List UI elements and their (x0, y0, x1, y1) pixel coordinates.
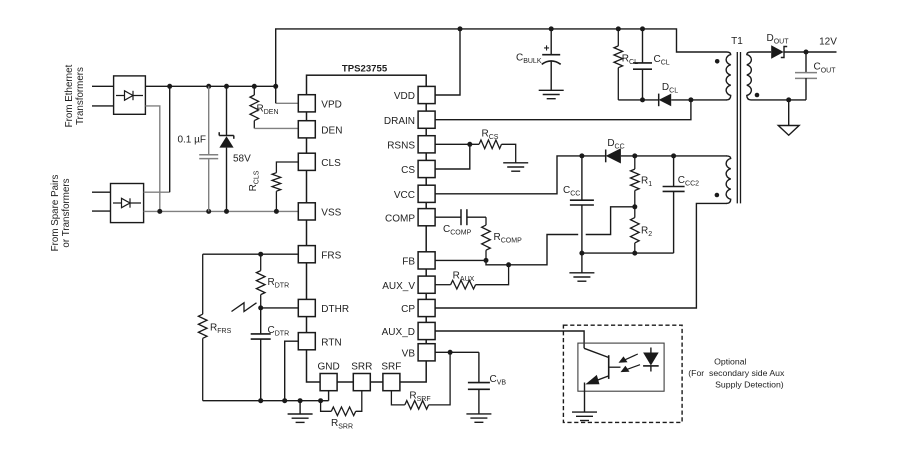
wire: DRAIN to primary (435, 100, 691, 120)
resistor RCS (479, 140, 516, 163)
svg-text:0.1 µF: 0.1 µF (177, 134, 206, 145)
svg-text:+: + (544, 44, 550, 55)
svg-text:From Ethernet: From Ethernet (64, 64, 75, 127)
pin SRF (381, 362, 401, 391)
transformer T1 core (737, 52, 740, 203)
svg-text:From Spare Pairs: From Spare Pairs (50, 175, 61, 252)
svg-text:FB: FB (402, 257, 415, 268)
diode bridge B1 (Ethernet pairs) (114, 76, 146, 114)
pin CS (401, 160, 435, 177)
capacitor CBULK (electrolytic) (542, 29, 561, 90)
wire: 12V stub (806, 51, 837, 53)
node: CCL clamp junction (640, 97, 645, 102)
wire: FRS node (203, 253, 299, 255)
node: DCL-primary junction (688, 97, 693, 102)
svg-text:Supply Detection): Supply Detection) (715, 379, 784, 389)
svg-text:AUX_D: AUX_D (382, 327, 415, 338)
pin VB (402, 344, 435, 361)
svg-text:CP: CP (401, 304, 415, 315)
wire: GND pin rail link (321, 400, 329, 402)
wire: divider bottom (582, 252, 674, 254)
diode DCL (659, 94, 691, 107)
wire: RTN to bottom rail (285, 341, 299, 401)
wire: bridge1 - output down to VSS rail (145, 106, 159, 211)
svg-text:TPS23755: TPS23755 (342, 63, 388, 74)
node: aux phase dot (715, 193, 720, 198)
wire: DTHR stub (261, 307, 299, 309)
svg-text:Optional: Optional (714, 356, 746, 366)
optocoupler LED (643, 348, 659, 372)
ground main (bottom left) (288, 401, 313, 423)
node: 12V junction (804, 50, 809, 55)
pin FB (402, 252, 435, 269)
wire: VPD rail riser and top VDD rail (276, 29, 727, 103)
node: RDTR top junction (258, 252, 263, 257)
node: R1 rail junction (632, 153, 637, 158)
wire: bridge2 + output up to VPD rail (144, 86, 170, 192)
node: CCC rail junction (579, 153, 584, 158)
wire: AUX_D to optocoupler (435, 331, 584, 348)
capacitor CCL (633, 29, 652, 100)
resistor RCL (614, 29, 623, 100)
wire: B2 input stubs (92, 192, 111, 211)
node: RTN rail junction (282, 398, 287, 403)
pin DEN (298, 121, 342, 138)
pin AUX_D (382, 322, 435, 339)
ground secondary (chassis triangle) (778, 100, 799, 135)
node: VPD rail junctions (167, 84, 278, 89)
transformer T1 secondary winding (747, 52, 752, 100)
svg-text:58V: 58V (233, 154, 251, 165)
node: VDD rail junction (458, 26, 463, 31)
svg-text:Transformers: Transformers (75, 67, 86, 125)
capacitor CCC2 (663, 156, 685, 253)
node: ground rail junction (298, 398, 303, 403)
capacitor CVB (468, 352, 490, 414)
resistor RCOMP (482, 217, 491, 260)
wire: CP to aux winding (435, 203, 727, 308)
optocoupler phototransistor (584, 348, 620, 412)
node: RCOMP-FB junction (484, 258, 489, 263)
op-amp U1 TPS23755 IC body (307, 75, 427, 382)
svg-text:RTN: RTN (321, 337, 341, 348)
svg-text:RSNS: RSNS (387, 141, 415, 152)
ground under optocoupler (572, 411, 597, 413)
pin CLS (298, 153, 341, 170)
node: CCL rail junction (640, 26, 645, 31)
capacitor CCC (570, 156, 594, 253)
capacitor 0.1uF (199, 86, 218, 211)
node: CBULK rail junction (549, 26, 554, 31)
svg-text:T1: T1 (731, 36, 743, 47)
pin VDD (394, 86, 435, 103)
resistor RDEN (250, 86, 298, 128)
wire: clamp bottom (618, 99, 658, 101)
pin SRR (351, 362, 372, 391)
ground under RCS (503, 162, 528, 164)
svg-text:DTHR: DTHR (321, 304, 349, 315)
pin RSNS (387, 136, 435, 153)
resistor RCLS (272, 162, 298, 211)
svg-text:SRF: SRF (381, 362, 401, 373)
capacitor COUT (795, 52, 817, 100)
wire: VSS bottom rail (144, 210, 299, 212)
pin COMP (385, 209, 435, 226)
diode bridge B2 (spare pairs) (111, 184, 144, 223)
pin DRAIN (384, 111, 435, 128)
svg-text:AUX_V: AUX_V (382, 281, 415, 292)
capacitor CDTR (251, 308, 271, 401)
sawtooth waveform symbol (232, 303, 257, 312)
node: R2 bottom junction (632, 251, 637, 256)
svg-text:VDD: VDD (394, 91, 415, 102)
node: CDTR bottom junction (258, 398, 263, 403)
ground under CBULK (539, 89, 564, 91)
net label: From Ethernet Transformers (64, 64, 86, 127)
label Optional note (688, 356, 785, 389)
diode DCC (606, 148, 727, 163)
node: RAUX-FB junction (506, 262, 511, 267)
wire: RSNS stub (435, 143, 479, 145)
svg-text:or Transformers: or Transformers (61, 178, 72, 247)
svg-text:VSS: VSS (321, 208, 341, 219)
wire: VDD pin to top rail (435, 29, 460, 95)
svg-text:CS: CS (401, 165, 415, 176)
svg-text:12V: 12V (819, 37, 837, 48)
node: RCL rail junction (616, 26, 621, 31)
resistor R2 (631, 207, 640, 253)
zener diode 58V (219, 86, 234, 211)
optocoupler light arrows (619, 354, 641, 372)
node: RSRR junction (318, 398, 323, 403)
node: RSNS-CS junction (467, 142, 472, 147)
wire: FB to divider (435, 235, 578, 265)
pin VCC (394, 185, 435, 202)
pin CP (401, 299, 435, 316)
node: secondary phase dot (755, 93, 760, 98)
node: secondary ground junction (786, 97, 791, 102)
svg-text:SRR: SRR (351, 362, 372, 373)
wire: secondary bottom (751, 99, 806, 101)
capacitor CCOMP (435, 209, 486, 225)
node: VB junction (448, 350, 453, 355)
svg-text:COMP: COMP (385, 213, 415, 224)
resistor R1 (631, 156, 640, 207)
svg-text:CLS: CLS (321, 158, 341, 169)
optional dashed box (563, 325, 682, 422)
svg-text:VPD: VPD (321, 100, 342, 111)
wire: FB to divider (after hop) (586, 207, 635, 235)
net label: From Spare Pairs or Transformers (50, 175, 72, 252)
resistor RAUX (435, 265, 509, 289)
wire: VCC to aux rail (435, 156, 606, 194)
node: CCC bottom junction (579, 251, 584, 256)
pin VSS (298, 203, 341, 220)
wire: VB stub (435, 351, 479, 353)
diode DOUT (schottky) (771, 45, 806, 59)
pin AUX_V (382, 276, 435, 293)
resistor RFRS (198, 254, 207, 401)
node: VSS rail junctions (157, 209, 279, 214)
svg-text:FRS: FRS (321, 250, 341, 261)
transformer T1 aux winding (726, 156, 731, 204)
wire: VPD top rail (bridge1 +) (145, 85, 275, 87)
wire: CS stub (435, 144, 470, 169)
svg-text:VB: VB (402, 349, 416, 360)
resistor RSRF (391, 352, 450, 409)
node: CCC2 rail junction (671, 153, 676, 158)
node: R1-R2 junction (632, 204, 637, 209)
wire: RTN bottom rail (203, 400, 321, 402)
wire: secondary top to DOUT (751, 51, 771, 53)
ground under CVB (466, 413, 491, 415)
wire: B1 input stubs (92, 86, 114, 106)
pin VPD (298, 95, 342, 112)
node: RDTR-CDTR junction (258, 305, 263, 310)
resistor RDTR (256, 254, 265, 308)
svg-text:GND: GND (317, 362, 339, 373)
pin FRS (298, 246, 341, 263)
wire: primary bottom (691, 99, 727, 101)
transformer T1 primary winding (726, 52, 731, 100)
ground under divider (569, 253, 594, 281)
optocoupler U2 body (578, 343, 664, 391)
node: primary phase dot (715, 59, 720, 64)
svg-text:(For secondary side Aux: (For secondary side Aux (688, 368, 785, 378)
svg-text:DEN: DEN (321, 126, 342, 137)
svg-text:DRAIN: DRAIN (384, 116, 415, 127)
pin GND (317, 362, 339, 391)
svg-text:VCC: VCC (394, 190, 415, 201)
pin DTHR (298, 299, 349, 316)
wire: GND pin to rail (328, 391, 330, 401)
pin RTN (298, 333, 341, 350)
resistor RSRR (321, 391, 362, 416)
